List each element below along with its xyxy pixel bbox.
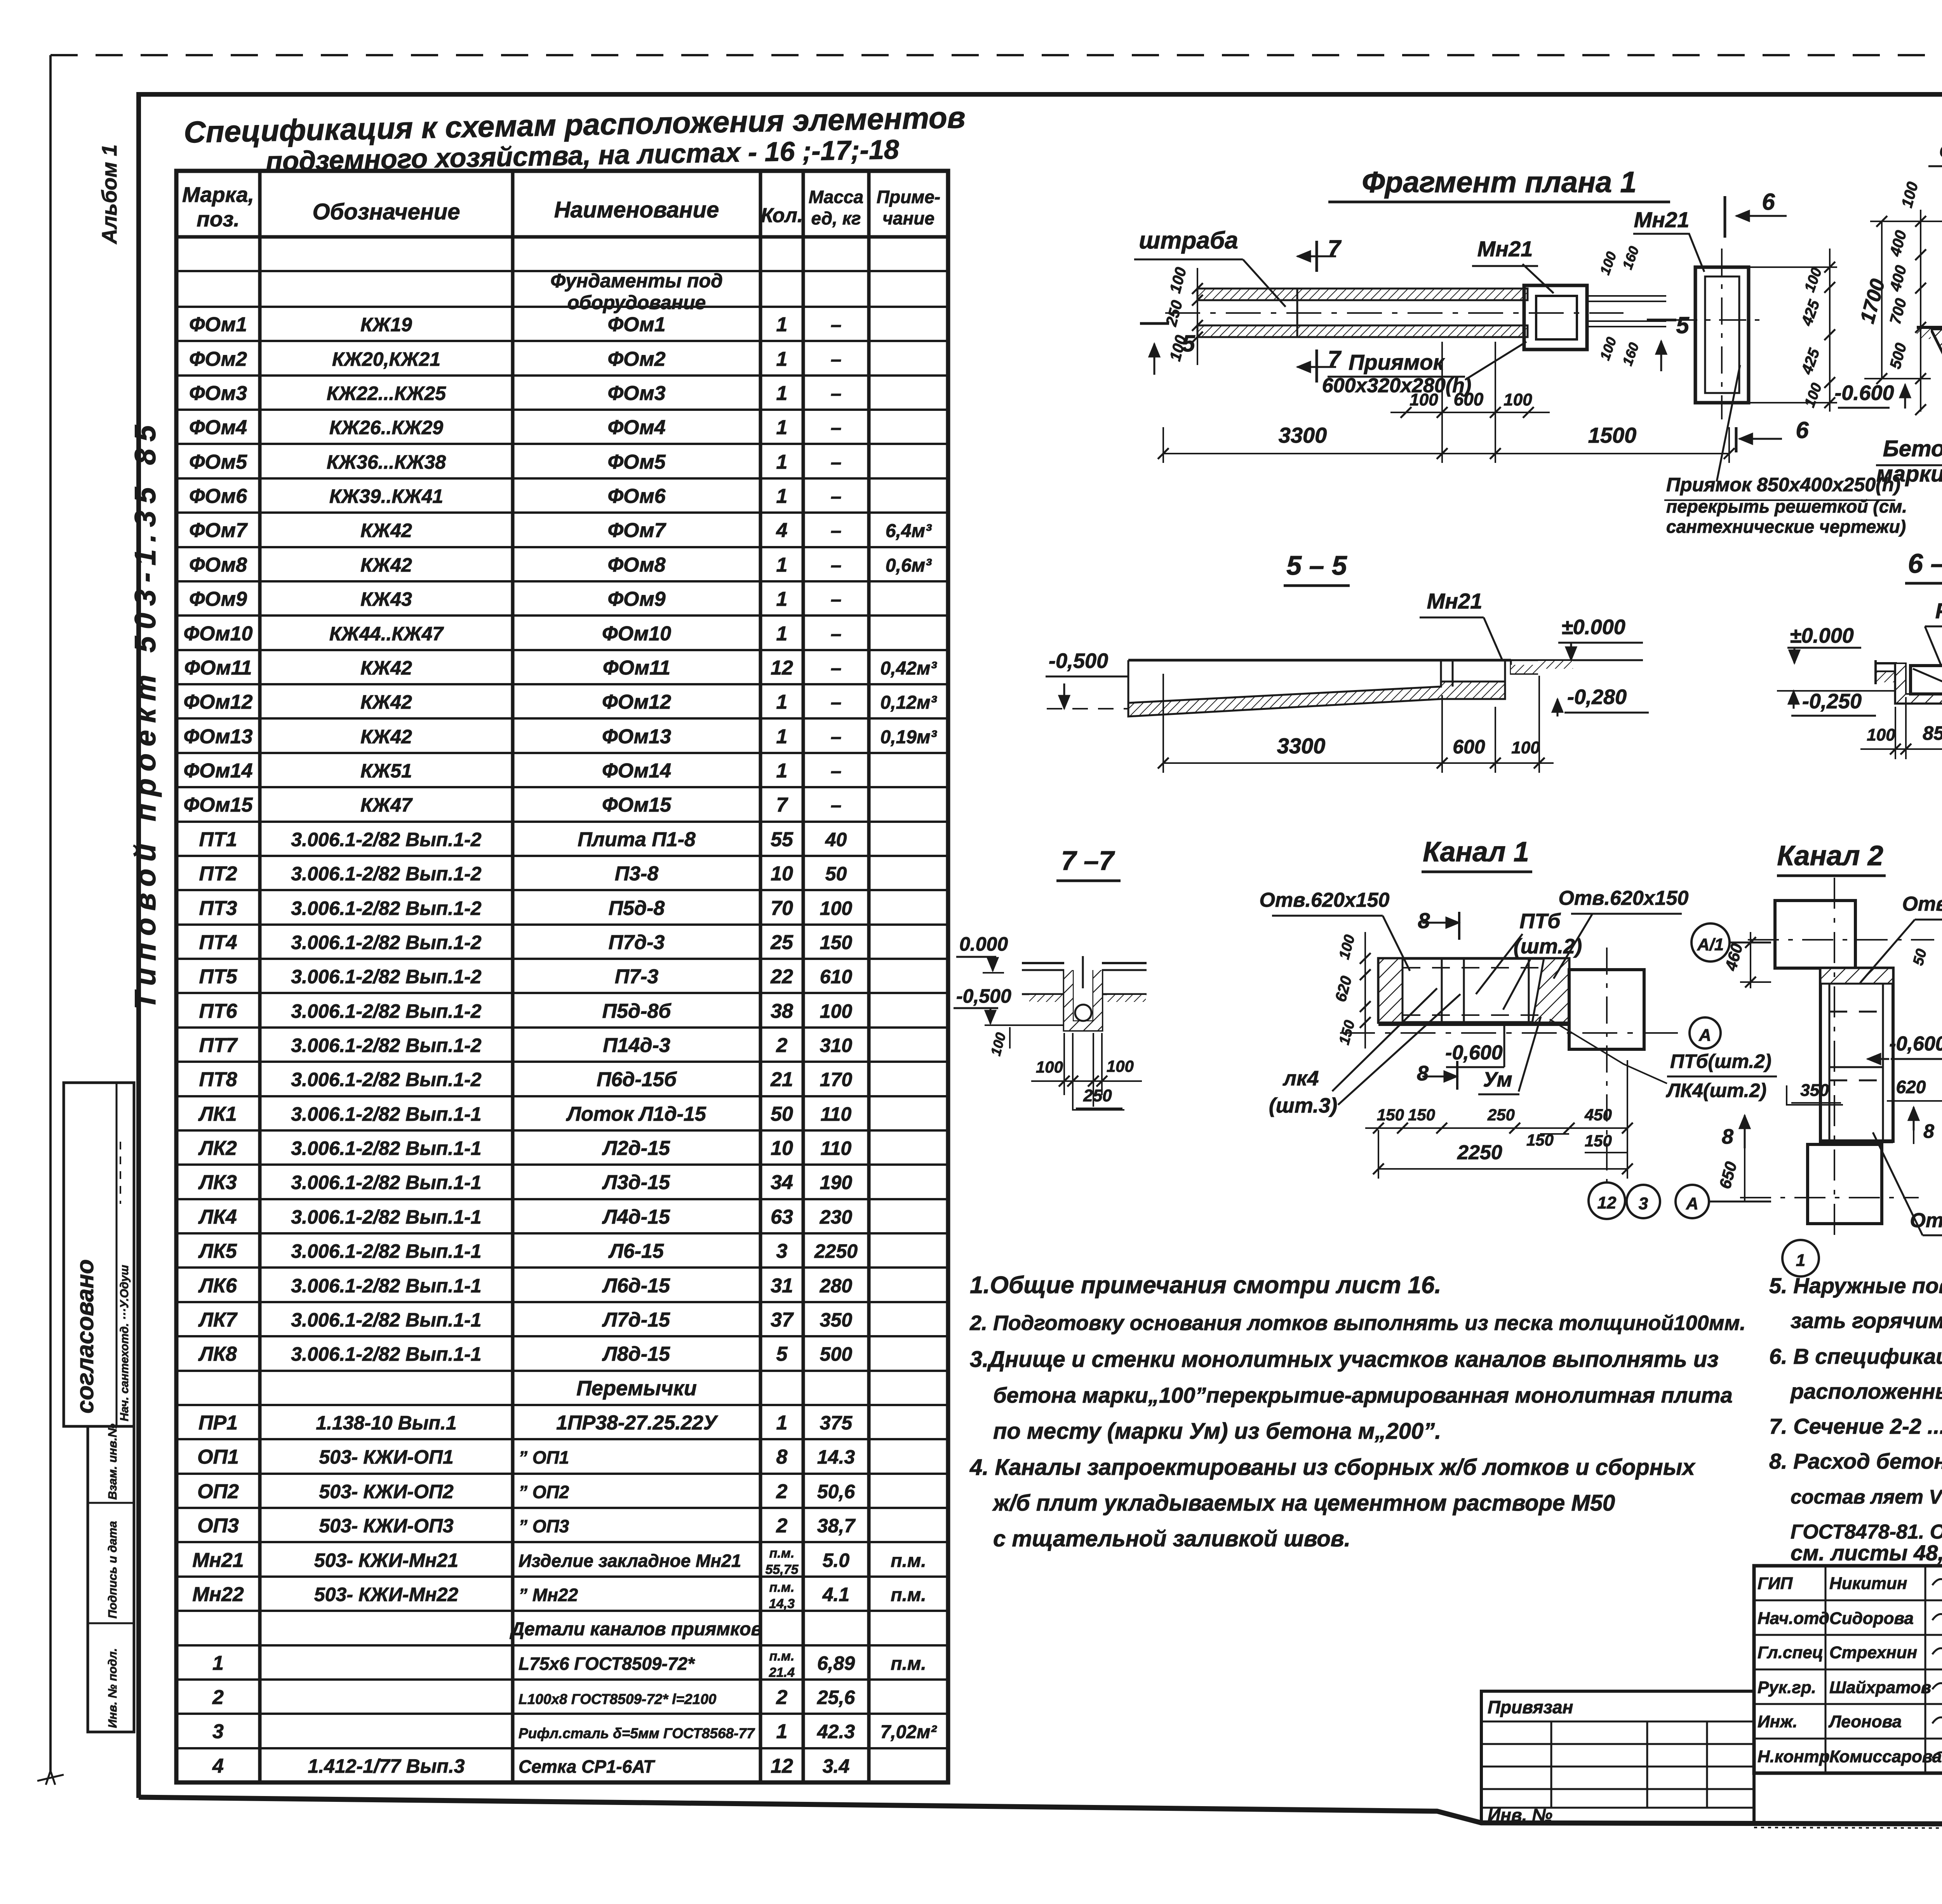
svg-text:Леонова: Леонова xyxy=(1828,1712,1902,1731)
канал2 horizontal axis top xyxy=(1748,939,1934,941)
svg-text:Сетка СР1-6АТ: Сетка СР1-6АТ xyxy=(519,1756,656,1777)
svg-text:ЛК5: ЛК5 xyxy=(198,1240,237,1262)
svg-text:100: 100 xyxy=(1867,725,1895,744)
svg-text:6: 6 xyxy=(1796,417,1809,443)
svg-text:1: 1 xyxy=(1796,1251,1805,1270)
svg-text:КЖ44..КЖ47: КЖ44..КЖ47 xyxy=(329,623,444,645)
svg-text:14.3: 14.3 xyxy=(817,1446,855,1468)
svg-text:425: 425 xyxy=(1798,297,1823,328)
section marker 6 (top right) xyxy=(1724,196,1726,238)
svg-text:3300: 3300 xyxy=(1277,734,1326,758)
2-2 ground line xyxy=(1917,326,1942,329)
svg-text:Перемычки: Перемычки xyxy=(576,1377,697,1400)
svg-text:П5д-8б: П5д-8б xyxy=(602,1000,672,1022)
svg-text:3.006.1-2/82 Вып.1-2: 3.006.1-2/82 Вып.1-2 xyxy=(291,1035,481,1056)
svg-text:6 – 6: 6 – 6 xyxy=(1908,548,1942,579)
svg-text:503- КЖИ-ОП3: 503- КЖИ-ОП3 xyxy=(319,1515,454,1537)
svg-text:-0,500: -0,500 xyxy=(1049,649,1108,673)
svg-text:КЖ42: КЖ42 xyxy=(360,726,412,748)
svg-text:А: А xyxy=(1698,1026,1711,1045)
table header bottom line xyxy=(176,235,948,239)
svg-text:40: 40 xyxy=(825,829,847,850)
канал2 inner dashed opening lines xyxy=(1829,1011,1883,1013)
канал2 bottom attached box xyxy=(1808,1144,1882,1224)
svg-text:-0,600: -0,600 xyxy=(1889,1033,1942,1055)
5-5 hatch under 0.000 line xyxy=(1538,661,1573,669)
svg-text:расположенные на листах 18, 4: расположенные на листах 18, 48, 49, 50. xyxy=(1790,1379,1942,1403)
svg-text:Рифл.сталь δ=5мм ГОСТ8568-77: Рифл.сталь δ=5мм ГОСТ8568-77 xyxy=(519,1725,755,1741)
svg-text:ФОм8: ФОм8 xyxy=(189,554,247,576)
svg-text:160: 160 xyxy=(1619,340,1642,367)
svg-text:ПТ7: ПТ7 xyxy=(199,1034,238,1057)
svg-text:1: 1 xyxy=(776,313,788,336)
svg-text:ФОм4: ФОм4 xyxy=(607,416,665,439)
svg-text:6,89: 6,89 xyxy=(817,1652,855,1674)
svg-text:3.006.1-2/82 Вып.1-2: 3.006.1-2/82 Вып.1-2 xyxy=(291,829,481,850)
plan: channel inner edge lines xyxy=(1197,299,1528,301)
svg-text:0,19м³: 0,19м³ xyxy=(881,727,938,748)
svg-text:Инж.: Инж. xyxy=(1758,1712,1798,1731)
svg-text:КЖ42: КЖ42 xyxy=(360,520,412,541)
7-7 заделать leader xyxy=(1082,956,1084,988)
svg-text:7: 7 xyxy=(1328,346,1342,372)
svg-text:П5д-8: П5д-8 xyxy=(609,897,665,920)
svg-text:П7д-3: П7д-3 xyxy=(609,931,665,954)
svg-text:п.м.: п.м. xyxy=(891,1585,926,1605)
2-2 ground hatch left of pit xyxy=(1917,329,1931,339)
svg-text:503- КЖИ-Мн22: 503- КЖИ-Мн22 xyxy=(314,1584,458,1605)
svg-text:Изделие закладное Мн21: Изделие закладное Мн21 xyxy=(519,1551,741,1571)
svg-text:3.006.1-2/82 Вып.1-2: 3.006.1-2/82 Вып.1-2 xyxy=(291,1069,481,1090)
5-5 top slab line xyxy=(1128,659,1511,662)
7-7 channel wall hatch xyxy=(1064,970,1102,1030)
plan: channel lower hatched strip xyxy=(1197,325,1528,337)
svg-text:350: 350 xyxy=(1800,1081,1829,1100)
svg-text:–: – xyxy=(831,623,842,645)
sheet outer dashed top border xyxy=(50,54,1942,56)
svg-text:150: 150 xyxy=(820,932,853,953)
svg-text:70: 70 xyxy=(771,897,793,920)
svg-text:ПТ6: ПТ6 xyxy=(199,1000,237,1022)
svg-text:150: 150 xyxy=(1585,1132,1612,1150)
5-5 right end step xyxy=(1441,660,1538,687)
svg-text:1: 1 xyxy=(776,1720,788,1743)
svg-text:Взам. инв.№: Взам. инв.№ xyxy=(106,1424,119,1500)
5-5 sloping hatched bottom band xyxy=(1128,682,1505,716)
svg-text:2250: 2250 xyxy=(814,1240,858,1262)
svg-text:Комиссарова: Комиссарова xyxy=(1829,1747,1942,1766)
svg-text:0,12м³: 0,12м³ xyxy=(881,692,938,713)
svg-text:ПТб: ПТб xyxy=(1519,909,1561,933)
svg-text:3300: 3300 xyxy=(1279,423,1327,447)
svg-text:425: 425 xyxy=(1798,346,1823,377)
svg-text:2. Подготовку основания лотков: 2. Подготовку основания лотков выполнять… xyxy=(969,1311,1746,1335)
svg-text:чание: чание xyxy=(882,208,934,228)
svg-text:22: 22 xyxy=(770,965,793,988)
svg-text:1500: 1500 xyxy=(1588,423,1637,447)
svg-text:поз.: поз. xyxy=(197,207,240,231)
svg-text:2: 2 xyxy=(776,1034,788,1057)
svg-text:600: 600 xyxy=(1453,736,1485,758)
svg-text:ФОм15: ФОм15 xyxy=(602,794,672,816)
svg-text:310: 310 xyxy=(820,1035,853,1056)
svg-text:31: 31 xyxy=(771,1275,793,1297)
2-2 left dim chain xyxy=(1920,210,1921,412)
6-6 dims 100 850 100 xyxy=(1860,748,1942,750)
svg-text:” ОП1: ” ОП1 xyxy=(519,1447,569,1468)
svg-text:21.4: 21.4 xyxy=(769,1665,795,1680)
svg-text:А: А xyxy=(1686,1194,1698,1213)
svg-text:600х320х280(h): 600х320х280(h) xyxy=(1322,374,1472,397)
канал2 inner solid wall lines xyxy=(1829,984,1831,1141)
svg-text:7: 7 xyxy=(776,794,788,816)
svg-text:ФОм10: ФОм10 xyxy=(602,622,671,645)
svg-text:Решетка (см.сантехни-: Решетка (см.сантехни- xyxy=(1935,598,1942,623)
svg-text:-0,600: -0,600 xyxy=(1445,1042,1503,1064)
5-5 ground hatch right of step xyxy=(1511,665,1538,673)
svg-text:оборудование: оборудование xyxy=(567,292,706,313)
svg-text:6: 6 xyxy=(1762,189,1775,215)
svg-text:L75х6 ГОСТ8509-72*: L75х6 ГОСТ8509-72* xyxy=(519,1654,695,1674)
svg-text:Никитин: Никитин xyxy=(1829,1574,1907,1593)
table row lines xyxy=(176,270,948,272)
svg-text:КЖ51: КЖ51 xyxy=(360,760,412,782)
svg-text:Л2д-15: Л2д-15 xyxy=(602,1137,670,1160)
6-6 trough walls hatch xyxy=(1895,663,1942,703)
7-7 dims 100 100 xyxy=(1031,1080,1142,1082)
svg-text:–: – xyxy=(831,348,842,370)
svg-text:350: 350 xyxy=(820,1309,853,1331)
svg-text:±0.000: ±0.000 xyxy=(1790,624,1854,647)
svg-text:ЛК6: ЛК6 xyxy=(198,1275,237,1297)
svg-text:П3-8: П3-8 xyxy=(615,862,659,885)
svg-text:ФОм14: ФОм14 xyxy=(602,760,671,782)
svg-text:-0.600: -0.600 xyxy=(1834,381,1894,405)
2-2 dim 1700 xyxy=(1881,221,1883,379)
канал1 dim 2250 xyxy=(1378,1168,1627,1170)
канал1 bottom edge thick xyxy=(1378,1023,1569,1026)
svg-text:бетона марки„100”перекрытие-а: бетона марки„100”перекрытие-армированная… xyxy=(993,1383,1733,1407)
svg-text:Фрагмент плана 1: Фрагмент плана 1 xyxy=(1362,166,1636,199)
svg-text:ж/б плит укладываемых на це: ж/б плит укладываемых на цементном раств… xyxy=(992,1490,1615,1516)
svg-text:3.006.1-2/82 Вып.1-1: 3.006.1-2/82 Вып.1-1 xyxy=(291,1206,481,1228)
circle А right xyxy=(1690,1017,1721,1049)
svg-text:0,6м³: 0,6м³ xyxy=(886,555,932,576)
канал1 inner vertical dividers xyxy=(1441,958,1443,1022)
svg-text:4.1: 4.1 xyxy=(822,1584,850,1605)
svg-text:–: – xyxy=(831,726,842,748)
svg-text:П14д-3: П14д-3 xyxy=(603,1034,670,1057)
svg-text:КЖ43: КЖ43 xyxy=(360,588,412,610)
svg-text:5. Наружные поверхности ж/б п: 5. Наружные поверхности ж/б плит перекры… xyxy=(1769,1273,1942,1298)
svg-text:ФОм5: ФОм5 xyxy=(607,451,666,473)
svg-text:Мн21: Мн21 xyxy=(1634,207,1690,232)
svg-text:100: 100 xyxy=(1597,249,1620,276)
svg-text:100: 100 xyxy=(1898,180,1922,210)
svg-text:150: 150 xyxy=(1408,1106,1435,1124)
svg-text:42.3: 42.3 xyxy=(817,1721,855,1742)
svg-text:12: 12 xyxy=(771,1755,793,1777)
svg-text:ОП3: ОП3 xyxy=(197,1515,239,1537)
svg-text:КЖ42: КЖ42 xyxy=(360,657,412,679)
svg-text:ФОм1: ФОм1 xyxy=(607,313,665,336)
канал1 left end hatched block xyxy=(1378,958,1403,1022)
svg-text:КЖ22...КЖ25: КЖ22...КЖ25 xyxy=(327,383,446,404)
7-7 pipe circle xyxy=(1075,1005,1091,1021)
svg-text:8: 8 xyxy=(1923,1120,1934,1142)
svg-text:Л6-15: Л6-15 xyxy=(608,1240,664,1262)
svg-text:Отв.620х150: Отв.620х150 xyxy=(1902,893,1942,915)
svg-text:3: 3 xyxy=(776,1240,788,1262)
svg-text:7. Сечение 2-2 ...4-4 замарки: 7. Сечение 2-2 ...4-4 замаркированы на л… xyxy=(1769,1414,1942,1438)
svg-text:10: 10 xyxy=(771,1137,793,1160)
канал2 vertical axis xyxy=(1834,878,1835,1239)
svg-text:Детали каналов приямков: Детали каналов приямков xyxy=(510,1619,762,1640)
svg-text:620: 620 xyxy=(1896,1077,1926,1097)
svg-text:1: 1 xyxy=(212,1652,224,1674)
svg-text:Отв.620х150: Отв.620х150 xyxy=(1559,887,1689,909)
svg-text:21: 21 xyxy=(770,1068,793,1091)
svg-text:2250: 2250 xyxy=(1457,1141,1502,1164)
svg-text:250: 250 xyxy=(1162,299,1186,329)
svg-text:ФОм12: ФОм12 xyxy=(602,691,671,713)
svg-text:см. листы 48, 49, 50.: см. листы 48, 49, 50. xyxy=(1791,1541,1942,1565)
svg-text:Гл.спец: Гл.спец xyxy=(1758,1643,1823,1662)
svg-text:КЖ36...КЖ38: КЖ36...КЖ38 xyxy=(327,451,446,473)
svg-text:503- КЖИ-ОП1: 503- КЖИ-ОП1 xyxy=(319,1446,453,1468)
svg-text:1: 1 xyxy=(776,691,788,713)
канал1 right end hatched block xyxy=(1532,958,1569,1022)
svg-text:50: 50 xyxy=(771,1103,793,1125)
svg-text:–: – xyxy=(831,691,842,713)
svg-text:1: 1 xyxy=(776,622,788,645)
svg-text:ФОм13: ФОм13 xyxy=(602,725,671,748)
svg-text:КЖ47: КЖ47 xyxy=(360,794,413,816)
svg-text:110: 110 xyxy=(821,1137,852,1159)
svg-text:” ОП2: ” ОП2 xyxy=(519,1482,569,1502)
svg-text:8: 8 xyxy=(776,1446,788,1468)
svg-text:ГИП: ГИП xyxy=(1758,1574,1793,1593)
svg-text:ЛК7: ЛК7 xyxy=(198,1309,238,1331)
svg-text:3: 3 xyxy=(1639,1194,1648,1213)
svg-text:Л8д-15: Л8д-15 xyxy=(602,1343,670,1365)
svg-text:Н.контр: Н.контр xyxy=(1758,1747,1830,1766)
svg-text:(шт.2): (шт.2) xyxy=(1514,935,1582,958)
svg-text:ФОм3: ФОм3 xyxy=(189,382,247,405)
svg-text:3: 3 xyxy=(212,1720,224,1743)
svg-text:100: 100 xyxy=(1167,266,1190,295)
svg-text:14,3: 14,3 xyxy=(769,1596,795,1611)
svg-text:450: 450 xyxy=(1584,1106,1612,1124)
svg-text:34: 34 xyxy=(771,1171,793,1194)
svg-text:100: 100 xyxy=(1503,390,1532,409)
svg-text:согласовано: согласовано xyxy=(72,1259,99,1414)
section marker 5 (right) xyxy=(1647,319,1676,322)
svg-text:150: 150 xyxy=(1377,1106,1404,1124)
specification table outer border xyxy=(176,171,948,1782)
svg-text:2: 2 xyxy=(776,1480,788,1503)
канал1 inner dashed lines xyxy=(1403,967,1544,969)
plan: stub lines from box to pit xyxy=(1587,295,1666,297)
канал1 long strip outline xyxy=(1378,958,1569,1022)
svg-text:ПТ2: ПТ2 xyxy=(199,862,237,885)
svg-text:503- КЖИ-Мн21: 503- КЖИ-Мн21 xyxy=(314,1549,458,1571)
svg-text:ФОм12: ФОм12 xyxy=(184,691,253,713)
svg-text:Обозначение: Обозначение xyxy=(313,199,460,224)
5-5 left end vertical xyxy=(1128,660,1129,716)
svg-text:–: – xyxy=(831,417,842,438)
svg-text:п.м.: п.м. xyxy=(769,1649,795,1664)
svg-text:-0,280: -0,280 xyxy=(1567,685,1627,709)
svg-text:ФОм1: ФОм1 xyxy=(189,313,247,336)
канал1 right attached box xyxy=(1569,970,1644,1049)
канал2 bottom box axis xyxy=(1740,1197,1919,1198)
svg-text:±0.000: ±0.000 xyxy=(1561,616,1625,639)
svg-text:1700: 1700 xyxy=(1856,276,1890,326)
2-2 pit hatched area xyxy=(1931,329,1942,379)
svg-text:Бетон: Бетон xyxy=(1883,436,1942,461)
svg-text:ФОм11: ФОм11 xyxy=(603,657,670,679)
6-6 grate diagonal xyxy=(1913,669,1942,722)
plan: right box (приямок with Мн21) xyxy=(1524,285,1587,350)
svg-text:КЖ26..КЖ29: КЖ26..КЖ29 xyxy=(329,417,443,438)
svg-text:100: 100 xyxy=(820,897,853,919)
svg-text:100: 100 xyxy=(1336,933,1358,961)
svg-text:Шайхратов: Шайхратов xyxy=(1829,1678,1931,1697)
6-6 floor slab left xyxy=(1876,662,1897,664)
svg-text:–: – xyxy=(831,794,842,816)
канал2 top hatched cap xyxy=(1820,968,1893,984)
svg-text:55: 55 xyxy=(771,828,794,851)
svg-text:1: 1 xyxy=(776,725,788,748)
svg-text:50: 50 xyxy=(825,863,847,885)
svg-text:(шт.3): (шт.3) xyxy=(1269,1094,1337,1117)
svg-text:1ПР38-27.25.22У: 1ПР38-27.25.22У xyxy=(556,1412,719,1434)
svg-text:38: 38 xyxy=(771,1000,793,1022)
svg-text:ФОм2: ФОм2 xyxy=(607,348,665,370)
svg-text:1: 1 xyxy=(776,416,788,439)
svg-text:Кол.: Кол. xyxy=(761,204,803,227)
6-6 grate box xyxy=(1911,666,1942,694)
svg-text:110: 110 xyxy=(821,1103,852,1125)
7-7 floor slab right xyxy=(1102,962,1147,964)
svg-text:ФОм4: ФОм4 xyxy=(189,416,247,439)
svg-text:ед, кг: ед, кг xyxy=(811,208,861,228)
vertical dim 100/250/100 left of plan xyxy=(1197,268,1198,365)
section marker 5 (left) xyxy=(1140,322,1169,325)
svg-text:10: 10 xyxy=(771,862,793,885)
svg-text:170: 170 xyxy=(820,1069,853,1090)
circles 12 3 xyxy=(1589,1182,1625,1219)
канал2 main vertical channel xyxy=(1820,968,1893,1141)
approval stamp box (согласовано) xyxy=(64,1083,134,1426)
svg-text:6. В спецификации учтены сбо: 6. В спецификации учтены сборные элемент… xyxy=(1769,1344,1942,1368)
svg-text:Отв.620х150: Отв.620х150 xyxy=(1260,889,1390,911)
svg-text:650: 650 xyxy=(1716,1160,1740,1191)
svg-text:ЛК8: ЛК8 xyxy=(198,1343,237,1365)
svg-text:Приме-: Приме- xyxy=(877,187,940,207)
svg-text:ПТ8: ПТ8 xyxy=(199,1068,237,1091)
svg-text:ФОм14: ФОм14 xyxy=(184,760,253,782)
svg-text:1: 1 xyxy=(776,451,788,473)
svg-text:ЛК1: ЛК1 xyxy=(198,1103,237,1125)
svg-text:–: – xyxy=(831,588,842,610)
svg-text:оп3: оп3 xyxy=(1939,137,1942,162)
svg-text:375: 375 xyxy=(820,1412,853,1434)
svg-text:2: 2 xyxy=(776,1686,788,1709)
svg-text:Л4д-15: Л4д-15 xyxy=(602,1206,670,1228)
circle 1 xyxy=(1782,1240,1819,1276)
svg-text:Канал 1: Канал 1 xyxy=(1423,836,1529,868)
svg-text:50,6: 50,6 xyxy=(817,1481,856,1502)
svg-text:Марка,: Марка, xyxy=(182,183,254,207)
svg-text:–: – xyxy=(831,451,842,473)
svg-text:250: 250 xyxy=(1083,1086,1112,1105)
svg-text:100: 100 xyxy=(1107,1057,1134,1075)
svg-text:–: – xyxy=(831,485,842,507)
svg-text:Плита П1-8: Плита П1-8 xyxy=(578,828,696,851)
vertical axis to circles 12/3 xyxy=(1606,948,1608,1182)
svg-text:ПР1: ПР1 xyxy=(198,1412,238,1434)
svg-text:L100х8 ГОСТ8509-72* l=2100: L100х8 ГОСТ8509-72* l=2100 xyxy=(519,1691,717,1707)
svg-text:ЛК4(шт.2): ЛК4(шт.2) xyxy=(1666,1080,1766,1101)
svg-text:400: 400 xyxy=(1886,264,1910,294)
svg-text:–: – xyxy=(831,383,842,404)
svg-text:50: 50 xyxy=(1910,947,1930,967)
6-6 trough body outline xyxy=(1895,663,1942,703)
svg-text:Нач. сантехотд. ···У.Одуш: Нач. сантехотд. ···У.Одуш xyxy=(118,1265,131,1421)
svg-text:КЖ39..КЖ41: КЖ39..КЖ41 xyxy=(329,485,443,507)
svg-text:0.000: 0.000 xyxy=(959,933,1008,955)
svg-text:Инв. № подл.: Инв. № подл. xyxy=(106,1648,119,1728)
circle А bottom xyxy=(1676,1185,1709,1218)
svg-text:-0,500: -0,500 xyxy=(956,985,1011,1007)
svg-text:100: 100 xyxy=(1597,335,1620,362)
svg-text:6,4м³: 6,4м³ xyxy=(886,521,932,541)
svg-text:КЖ20,КЖ21: КЖ20,КЖ21 xyxy=(332,348,440,370)
svg-text:” Мн22: ” Мн22 xyxy=(519,1585,578,1605)
dim row 3300 / 1500 xyxy=(1163,453,1729,454)
svg-text:3.006.1-2/82 Вып.1-1: 3.006.1-2/82 Вып.1-1 xyxy=(291,1343,481,1365)
svg-text:с тщательной заливкой швов.: с тщательной заливкой швов. xyxy=(993,1526,1350,1551)
svg-text:1: 1 xyxy=(776,554,788,576)
svg-text:55,75: 55,75 xyxy=(765,1562,799,1577)
svg-text:-0,250: -0,250 xyxy=(1802,690,1862,713)
svg-text:8: 8 xyxy=(1722,1125,1733,1148)
left border bottom arrow xyxy=(37,1771,64,1785)
svg-text:3.006.1-2/82 Вып.1-1: 3.006.1-2/82 Вып.1-1 xyxy=(291,1172,481,1193)
svg-text:Мн21: Мн21 xyxy=(1427,589,1483,613)
svg-text:Канал 2: Канал 2 xyxy=(1777,840,1883,871)
svg-text:КЖ42: КЖ42 xyxy=(360,691,412,713)
svg-text:Рук.гр.: Рук.гр. xyxy=(1758,1678,1816,1697)
svg-text:Мн21: Мн21 xyxy=(1477,236,1533,261)
svg-text:100: 100 xyxy=(1801,381,1825,410)
svg-text:0,42м³: 0,42м³ xyxy=(881,658,938,679)
svg-text:7: 7 xyxy=(1328,235,1342,261)
svg-text:3.006.1-2/82 Вып.1-2: 3.006.1-2/82 Вып.1-2 xyxy=(291,863,481,885)
svg-text:100: 100 xyxy=(1511,738,1540,757)
svg-text:3.006.1-2/82 Вып.1-1: 3.006.1-2/82 Вып.1-1 xyxy=(291,1275,481,1297)
svg-text:1.138-10 Вып.1: 1.138-10 Вып.1 xyxy=(316,1412,456,1434)
svg-text:–: – xyxy=(831,314,842,336)
plan: channel centerline xyxy=(1165,312,1624,314)
title block signature table xyxy=(1754,1566,1942,1773)
svg-text:100: 100 xyxy=(1036,1058,1063,1076)
svg-text:1: 1 xyxy=(776,485,788,508)
svg-text:ФОм9: ФОм9 xyxy=(189,588,247,610)
dotted line under title block xyxy=(1754,1827,1942,1830)
